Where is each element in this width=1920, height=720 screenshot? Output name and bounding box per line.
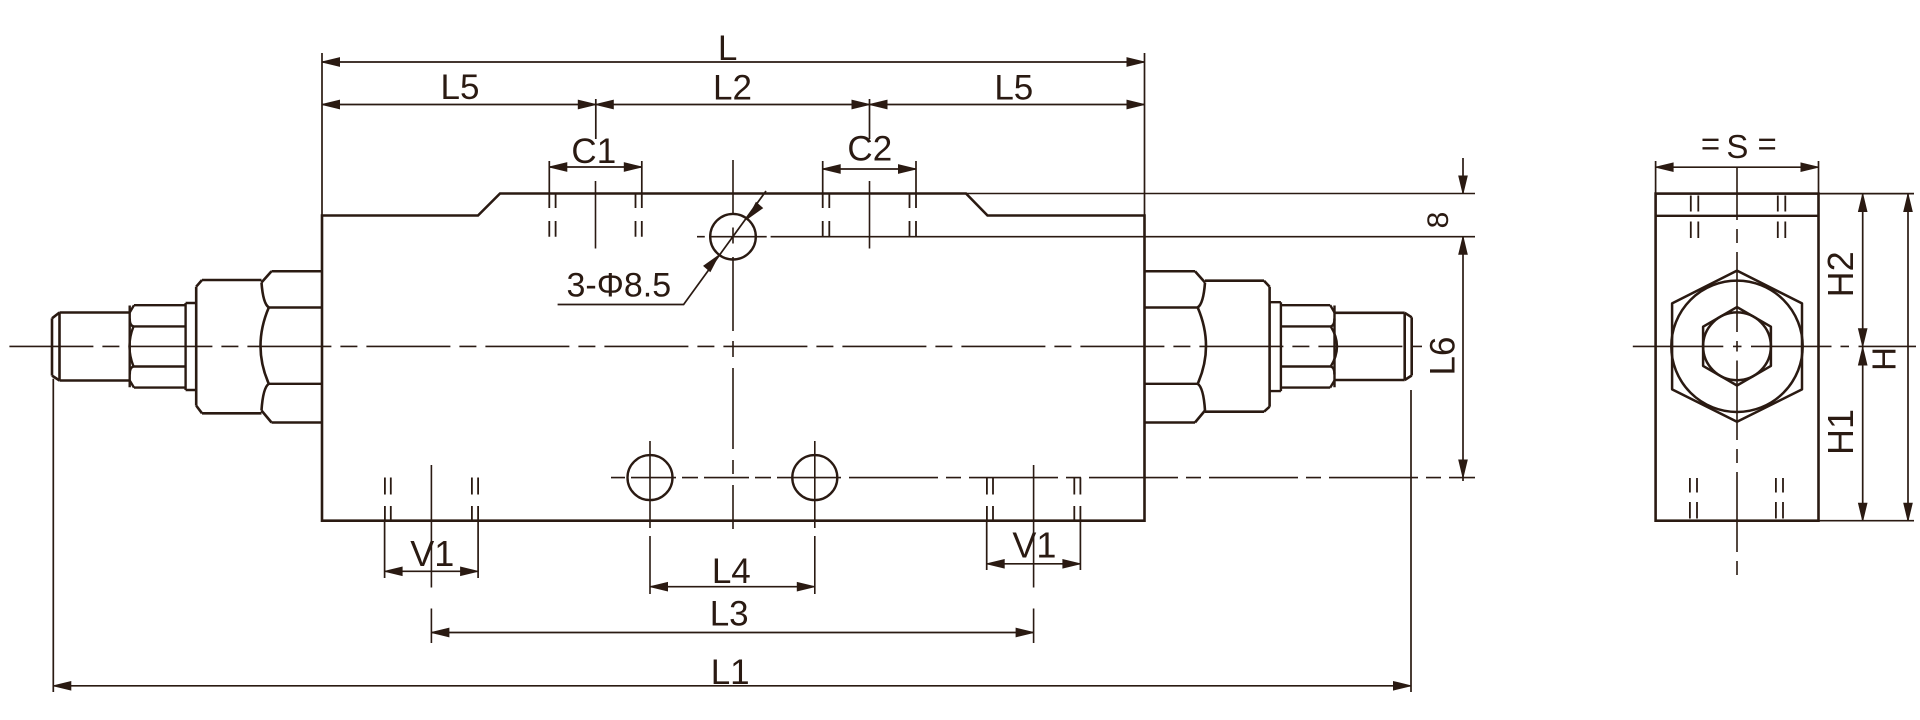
main horizontal centerline [9,345,1422,347]
right stem large cylinder [1205,281,1270,412]
arrow V1L right [461,567,479,575]
left stem hex (adjusting screw hex) [130,305,186,387]
svg-text:=: = [1701,125,1720,162]
V1 right thread hole dashed lines [987,478,1081,521]
C1 thread hole dashed lines [549,195,642,237]
arrow L3 left [431,628,449,636]
dimension C2 line [823,168,916,170]
dimension L1 line [53,685,1411,687]
top hole circle (3-Φ8.5) [710,214,756,260]
right hex nut (against body) [1145,271,1207,422]
arrow L1 left [53,682,71,690]
svg-text:L: L [718,29,737,68]
side view outer hexagon (hex nut) [1672,271,1802,422]
arrow H up [1904,194,1912,212]
svg-text:3-Φ8.5: 3-Φ8.5 [567,267,672,305]
dimension L5/L2/L5 line [322,104,1145,106]
left stem large cylinder (gland nut) [196,280,261,413]
svg-text:H1: H1 [1820,409,1861,455]
dimension L3 line [431,632,1033,634]
C1 extension lines [549,161,642,194]
dimension V1 left [385,570,479,572]
bottom hole right vertical centerline [814,441,816,594]
arrow L1 right [1394,682,1412,690]
svg-text:L5: L5 [441,68,480,107]
right stem washer band [1270,302,1281,391]
arrow L5 left [322,100,340,108]
V1 right hole centerline (extends to L3) [1033,465,1035,643]
V1 left hole centerline (extends to L3) [430,465,432,643]
svg-text:8: 8 [1422,212,1455,229]
svg-text:L4: L4 [712,552,751,591]
junction tick C1 [595,99,597,139]
svg-text:L6: L6 [1424,337,1463,376]
side view inner circle (stem) [1703,312,1771,380]
arrow L left [322,58,340,66]
dimension L line [322,61,1145,63]
dimension C1 line [549,166,642,168]
arrow H1 up [1859,348,1867,366]
right stem hex [1281,305,1337,387]
arrow L5 right [1127,100,1145,108]
arrow junction2 a [852,100,870,108]
arrow leader lower [704,253,722,272]
right stem tip (threaded stud end) [1335,313,1412,380]
V1 right extension lines [987,521,1081,570]
left stem washer band [186,303,197,390]
svg-text:C2: C2 [847,130,892,169]
svg-text:L3: L3 [710,595,749,634]
top hole horizontal centerline / 8-dim extension [697,236,1475,238]
side view body rectangle [1656,194,1819,521]
junction tick C2 [869,99,871,139]
arrow V1R right [1063,560,1081,568]
C2 extension lines [823,161,916,194]
side view vertical centerline [1736,167,1738,575]
bottom hole circle right [792,455,837,500]
bottom hole left vertical centerline [649,441,651,594]
arrow L right [1127,58,1145,66]
arrow L6 up [1459,237,1467,255]
top face extension line to 8-dim [966,193,1475,195]
dimension L6 line [1462,237,1464,481]
arrow S left [1656,163,1674,171]
V1 left thread hole dashed lines [385,478,478,521]
arrow L4 right [797,583,815,591]
side view top thread dashed lines [1691,196,1786,239]
side view bottom thread dashed lines [1690,478,1783,519]
side view inner hexagon (stem hex) [1703,307,1771,385]
arrow V1L left [385,567,403,575]
dimension S line [1656,166,1819,168]
svg-text:V1: V1 [1012,525,1056,566]
svg-text:=: = [1758,125,1777,162]
C2 hole centerline [869,181,871,249]
side view bottom face extension (H1/H) [1819,520,1915,522]
body vertical centerline [732,160,734,529]
svg-text:V1: V1 [410,533,454,574]
side view horizontal centerline [1633,345,1916,347]
arrow junction1 b [596,100,614,108]
dimension V1 right [987,563,1081,565]
arrow junction1 a [578,100,596,108]
S extension lines [1656,161,1819,194]
arrow junction2 b [870,100,888,108]
svg-text:S: S [1726,128,1748,165]
arrow S right [1801,163,1819,171]
left hex nut (against body) [261,271,323,422]
side view large circle (cylinder) [1671,281,1802,412]
svg-text:L5: L5 [994,69,1033,108]
arrow H2 down [1859,329,1867,347]
side view top face extension (H2/H) [1819,193,1915,195]
L1 extension lines [53,379,1411,692]
side view top step line [1656,215,1819,217]
svg-text:L2: L2 [713,69,752,108]
L extension lines [322,53,1145,216]
arrow H2 up [1859,194,1867,212]
svg-text:H: H [1866,347,1903,371]
C1 hole centerline [595,181,597,249]
arrow H1 down [1859,503,1867,521]
arrow C1 left [549,163,567,171]
bottom hole circle left [628,455,673,500]
dimension 8 line [1462,158,1464,194]
arrow C2 left [823,165,841,173]
svg-text:L1: L1 [711,653,750,692]
arrow V1R left [987,560,1005,568]
arrow leader upper [745,203,763,222]
left stem tip (threaded stud end) [52,313,130,381]
dimension H2/H1 line [1862,194,1864,521]
arrow L6 down [1459,460,1467,478]
body outline [322,194,1145,521]
arrow 8 down [1459,176,1467,194]
arrow L4 left [650,583,668,591]
svg-text:C1: C1 [571,132,616,171]
bottom holes horizontal centerline [611,477,1475,479]
arrow C2 right [899,165,917,173]
svg-text:H2: H2 [1820,251,1861,297]
arrow L3 right [1016,628,1034,636]
V1 left extension lines [385,521,479,578]
dimension H line [1907,194,1909,521]
C2 thread hole dashed lines [823,195,916,237]
arrow H down [1904,503,1912,521]
leader 3-Φ8.5 [558,191,766,305]
arrow C1 right [624,163,642,171]
dimension L4 line [650,586,815,588]
